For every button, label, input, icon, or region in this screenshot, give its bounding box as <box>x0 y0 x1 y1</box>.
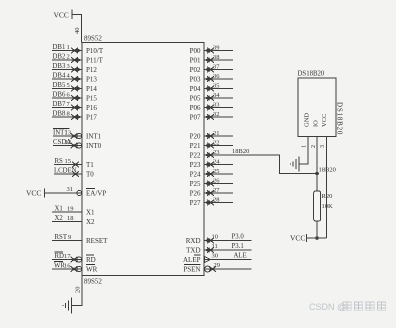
svg-text:P24: P24 <box>190 171 201 179</box>
pin 40 number (rotated) <box>74 28 81 35</box>
svg-text:P10/T: P10/T <box>86 47 104 55</box>
svg-text:P14: P14 <box>86 85 97 93</box>
svg-text:15: 15 <box>65 158 72 165</box>
svg-text:P04: P04 <box>190 85 201 93</box>
svg-text:RS: RS <box>55 158 64 165</box>
pin 15 T1 / net RS <box>54 158 82 167</box>
pin name P12 <box>86 66 97 74</box>
svg-text:18B20: 18B20 <box>319 167 336 174</box>
pin 10 RXD / net P3.0 <box>204 234 252 244</box>
pin 4 P1.3 / wire + net label DB4 <box>52 73 82 82</box>
wire R20 bottom to VCC rail <box>316 221 318 238</box>
svg-text:P3.0: P3.0 <box>232 234 245 241</box>
svg-text:P05: P05 <box>190 95 201 103</box>
wire DS18B20 GND pin to ground <box>300 136 309 164</box>
pin name WR <box>86 265 98 274</box>
wire DS18B20 IO pin down to junction <box>316 136 318 191</box>
svg-text:P3.1: P3.1 <box>232 243 244 250</box>
pin name P07 <box>190 114 201 122</box>
pin 2 number (rotated) <box>311 145 317 148</box>
watermark CSDN <box>309 302 386 312</box>
pin 3 P1.2 / wire + net label DB3 <box>52 63 82 72</box>
pin name RESET <box>86 237 108 245</box>
power port VCC (top, to pin 40) <box>54 10 73 20</box>
power port VCC (bottom right) <box>290 234 307 243</box>
pin name P17 <box>86 114 97 122</box>
svg-text:34: 34 <box>213 92 220 99</box>
pin 16 WR / net WR <box>52 261 82 271</box>
svg-text:1: 1 <box>302 145 308 148</box>
pin 12 INT0 / net CSDA <box>53 139 82 148</box>
svg-text:28: 28 <box>213 197 220 204</box>
pin 5 P1.4 / wire + net label DB5 <box>52 82 82 91</box>
svg-text:ALEP: ALEP <box>183 256 201 264</box>
pin 31 EA/VP wire <box>45 186 83 196</box>
pin 13 INT1 / net INT1 <box>53 128 82 138</box>
svg-text:89S52: 89S52 <box>84 35 102 43</box>
svg-text:VCC: VCC <box>26 189 41 198</box>
svg-text:18B20: 18B20 <box>232 148 249 155</box>
pin 38 P0.1 wire <box>204 54 233 63</box>
pin name P02 <box>190 66 201 74</box>
svg-text:P15: P15 <box>86 95 97 103</box>
svg-text:39: 39 <box>213 45 220 52</box>
svg-text:DB4: DB4 <box>53 73 66 80</box>
pin name P03 <box>190 76 201 84</box>
pin name P23 <box>190 161 201 169</box>
pin name PSEN <box>183 265 200 274</box>
pin name P15 <box>86 95 97 103</box>
IC U1 AT89S52 body <box>82 43 204 276</box>
net label 18B20 (at junction) <box>319 167 336 174</box>
svg-text:DB7: DB7 <box>53 101 66 108</box>
pin name ALEP <box>183 255 201 264</box>
pin 1 number (rotated) <box>302 145 308 148</box>
pin 7 P1.6 / wire + net label DB7 <box>52 101 82 110</box>
svg-text:21: 21 <box>213 130 220 137</box>
svg-text:VCC: VCC <box>290 234 305 243</box>
resistor R20 body <box>314 191 321 221</box>
svg-text:X2: X2 <box>55 215 64 222</box>
pin 37 P0.2 wire <box>204 64 233 73</box>
ground (right of DS18B20) <box>290 157 299 172</box>
pin 39 P0.0 wire <box>204 45 233 54</box>
svg-text:VCC: VCC <box>321 114 328 127</box>
label 10K <box>322 203 334 210</box>
svg-text:2: 2 <box>311 145 317 148</box>
power port VCC (left, to pin 31) <box>26 189 45 198</box>
svg-text:3: 3 <box>320 145 326 148</box>
svg-text:DB1: DB1 <box>53 44 66 51</box>
svg-text:DB8: DB8 <box>53 111 66 118</box>
pin name P20 <box>190 133 201 141</box>
label 89S52 (bottom) <box>84 278 102 286</box>
svg-text:26: 26 <box>213 178 220 185</box>
pin 8 P1.7 / wire + net label DB8 <box>52 111 82 120</box>
pin name VCC (rotated) <box>321 114 328 127</box>
svg-text:12: 12 <box>65 139 72 146</box>
pin 9 RESET / net RST <box>52 234 82 241</box>
pin 32 P0.7 wire <box>204 111 233 120</box>
pin name P00 <box>190 47 201 55</box>
svg-text:9: 9 <box>68 234 71 241</box>
svg-text:P00: P00 <box>190 47 201 55</box>
label 89S52 (top) <box>84 35 102 43</box>
pin name P22 <box>190 152 201 160</box>
svg-text:29: 29 <box>214 262 221 269</box>
pin name P01 <box>190 57 201 65</box>
pin 3 number (rotated) <box>320 145 326 148</box>
svg-text:P21: P21 <box>190 142 201 150</box>
svg-text:P13: P13 <box>86 76 97 84</box>
svg-text:P16: P16 <box>86 104 97 112</box>
svg-text:T0: T0 <box>86 171 94 179</box>
wire IC pin 20 to ground <box>72 276 82 306</box>
svg-text:17: 17 <box>64 253 71 260</box>
svg-text:89S52: 89S52 <box>84 278 102 286</box>
svg-text:36: 36 <box>213 73 220 80</box>
svg-text:20: 20 <box>75 287 82 294</box>
pin 19 X1 crystal wire <box>52 206 82 213</box>
svg-text:P01: P01 <box>190 57 201 65</box>
pin name P11 <box>86 57 104 65</box>
pin name RD <box>86 255 96 264</box>
pin name RXD <box>186 237 201 245</box>
svg-text:35: 35 <box>213 83 220 90</box>
pin 25 P2.4 wire <box>204 168 233 177</box>
svg-text:25: 25 <box>213 168 220 175</box>
svg-text:18: 18 <box>67 215 74 222</box>
svg-text:DB2: DB2 <box>53 54 66 61</box>
svg-text:7: 7 <box>67 101 71 108</box>
svg-text:22: 22 <box>213 140 220 147</box>
pin 30 ALE / net ALE <box>204 253 252 263</box>
ground (bottom left) <box>62 298 71 314</box>
junction dot (R20 / VCC rail) <box>315 236 319 240</box>
wire VCC rail <box>307 237 327 239</box>
pin 35 P0.4 wire <box>204 83 233 92</box>
wire VCC to IC pin 40 <box>72 15 82 43</box>
label R20 <box>322 193 333 200</box>
label DS18B20 (right, rotated) <box>336 102 344 135</box>
svg-text:DS18B20: DS18B20 <box>336 102 344 135</box>
svg-text:4: 4 <box>67 73 71 80</box>
svg-text:DB5: DB5 <box>53 82 66 89</box>
pin 2 P1.1 / wire + net label DB2 <box>52 54 82 63</box>
svg-text:CSDN @: CSDN @ <box>309 302 346 312</box>
pin name P10 <box>86 47 104 55</box>
svg-text:2: 2 <box>67 54 70 61</box>
svg-text:P23: P23 <box>190 161 201 169</box>
pin name P27 <box>190 199 201 207</box>
pin name X2 <box>86 218 95 226</box>
pin name IO (rotated) <box>313 120 320 127</box>
pin 18 X2 crystal wire <box>52 215 82 222</box>
svg-text:32: 32 <box>213 111 220 118</box>
pin 23 P2.2 wire / net 18B20 to DS18B20 <box>204 148 317 174</box>
pin 20 number (rotated) <box>75 287 82 294</box>
svg-text:P07: P07 <box>190 114 201 122</box>
pin 22 P2.1 wire <box>204 140 233 149</box>
pin 34 P0.5 wire <box>204 92 233 101</box>
wire DS18B20 VCC pin down to rail <box>326 136 328 238</box>
svg-text:TXD: TXD <box>186 247 200 255</box>
svg-text:P25: P25 <box>190 180 201 188</box>
pin name T0 <box>86 171 94 179</box>
svg-text:LCDEN: LCDEN <box>54 168 77 175</box>
svg-text:P26: P26 <box>190 190 201 198</box>
svg-text:DB3: DB3 <box>53 63 66 70</box>
svg-text:X2: X2 <box>86 218 95 226</box>
svg-text:EA/VP: EA/VP <box>86 190 106 198</box>
svg-text:11: 11 <box>212 243 218 250</box>
svg-text:WR: WR <box>86 266 98 274</box>
pin 33 P0.6 wire <box>204 102 233 111</box>
svg-text:37: 37 <box>213 64 220 71</box>
pin name P26 <box>190 190 201 198</box>
pin 29 PSEN wire <box>204 262 252 272</box>
svg-text:X1: X1 <box>86 209 95 217</box>
svg-text:P12: P12 <box>86 66 97 74</box>
svg-text:23: 23 <box>213 149 220 156</box>
svg-text:5: 5 <box>67 82 70 89</box>
junction dot (IO / 18B20 net) <box>315 172 319 176</box>
pin 11 TXD / net P3.1 <box>204 243 252 253</box>
svg-text:P22: P22 <box>190 152 201 160</box>
pin name P13 <box>86 76 97 84</box>
pin 36 P0.3 wire <box>204 73 233 82</box>
pin 28 P2.7 wire <box>204 197 233 206</box>
pin name P14 <box>86 85 97 93</box>
svg-text:38: 38 <box>213 54 220 61</box>
svg-text:33: 33 <box>213 102 220 109</box>
svg-text:DS18B20: DS18B20 <box>298 71 325 78</box>
svg-text:P17: P17 <box>86 114 97 122</box>
svg-text:T1: T1 <box>86 161 94 169</box>
pin name TXD <box>186 247 200 255</box>
svg-text:VCC: VCC <box>54 11 69 20</box>
pin name INT0 <box>86 142 102 150</box>
pin name P04 <box>190 85 201 93</box>
svg-text:30: 30 <box>212 253 219 260</box>
pin name EA/VP <box>86 189 106 198</box>
svg-text:ALE: ALE <box>234 253 247 260</box>
pin name P16 <box>86 104 97 112</box>
svg-text:RESET: RESET <box>86 237 108 245</box>
svg-text:X1: X1 <box>55 206 63 213</box>
pin 6 P1.5 / wire + net label DB6 <box>52 92 82 101</box>
pin name P05 <box>190 95 201 103</box>
svg-text:6: 6 <box>67 92 71 99</box>
svg-text:3: 3 <box>67 63 70 70</box>
svg-text:GND: GND <box>304 113 311 127</box>
svg-text:27: 27 <box>213 187 220 194</box>
svg-text:RD: RD <box>86 256 96 264</box>
svg-text:10: 10 <box>212 234 219 241</box>
svg-text:P03: P03 <box>190 76 201 84</box>
svg-text:16: 16 <box>64 263 71 270</box>
svg-text:IO: IO <box>313 120 320 127</box>
pin 17 RD / net RD <box>52 252 82 262</box>
svg-text:RST: RST <box>55 234 68 241</box>
svg-text:P02: P02 <box>190 66 201 74</box>
pin 26 P2.5 wire <box>204 178 233 187</box>
pin name P25 <box>190 180 201 188</box>
svg-text:PSEN: PSEN <box>183 266 200 274</box>
svg-text:24: 24 <box>213 159 220 166</box>
label DS18B20 (top) <box>298 71 325 78</box>
pin name P21 <box>190 142 201 150</box>
svg-text:RXD: RXD <box>186 237 201 245</box>
pin 14 T0 / net LCDEN <box>54 168 82 177</box>
pin 27 P2.6 wire <box>204 187 233 196</box>
pin 21 P2.0 wire <box>204 130 233 139</box>
pin 24 P2.3 wire <box>204 159 233 168</box>
pin name P06 <box>190 104 201 112</box>
svg-text:31: 31 <box>67 186 74 193</box>
svg-text:DB6: DB6 <box>53 92 66 99</box>
sensor U2 DS18B20 body <box>298 78 336 136</box>
svg-text:1: 1 <box>67 44 70 51</box>
svg-text:19: 19 <box>67 206 74 213</box>
svg-text:13: 13 <box>65 130 72 137</box>
pin name INT1 <box>86 133 102 141</box>
svg-text:RD: RD <box>55 253 65 260</box>
pin name P24 <box>190 171 201 179</box>
svg-text:10K: 10K <box>322 203 334 210</box>
svg-text:P27: P27 <box>190 199 201 207</box>
pin name X1 <box>86 209 95 217</box>
svg-text:INT0: INT0 <box>86 142 102 150</box>
svg-text:40: 40 <box>74 28 81 35</box>
svg-text:P11/T: P11/T <box>86 57 104 65</box>
svg-text:P06: P06 <box>190 104 201 112</box>
pin 1 P1.0 / wire + net label DB1 <box>52 44 82 53</box>
svg-text:8: 8 <box>67 111 70 118</box>
pin name T1 <box>86 161 94 169</box>
svg-text:INT1: INT1 <box>86 133 102 141</box>
svg-text:P20: P20 <box>190 133 201 141</box>
pin name GND (rotated) <box>304 113 311 127</box>
